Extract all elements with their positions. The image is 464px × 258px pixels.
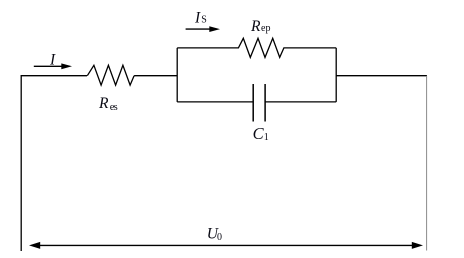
svg-text:I: I bbox=[49, 51, 56, 68]
svg-text:0: 0 bbox=[217, 232, 222, 243]
svg-text:C: C bbox=[253, 124, 265, 143]
svg-text:ep: ep bbox=[261, 23, 270, 34]
svg-text:S: S bbox=[201, 15, 207, 26]
svg-text:R: R bbox=[98, 95, 109, 112]
svg-text:1: 1 bbox=[264, 132, 269, 143]
svg-text:es: es bbox=[110, 102, 118, 113]
svg-text:I: I bbox=[194, 9, 201, 26]
svg-text:R: R bbox=[250, 18, 261, 35]
